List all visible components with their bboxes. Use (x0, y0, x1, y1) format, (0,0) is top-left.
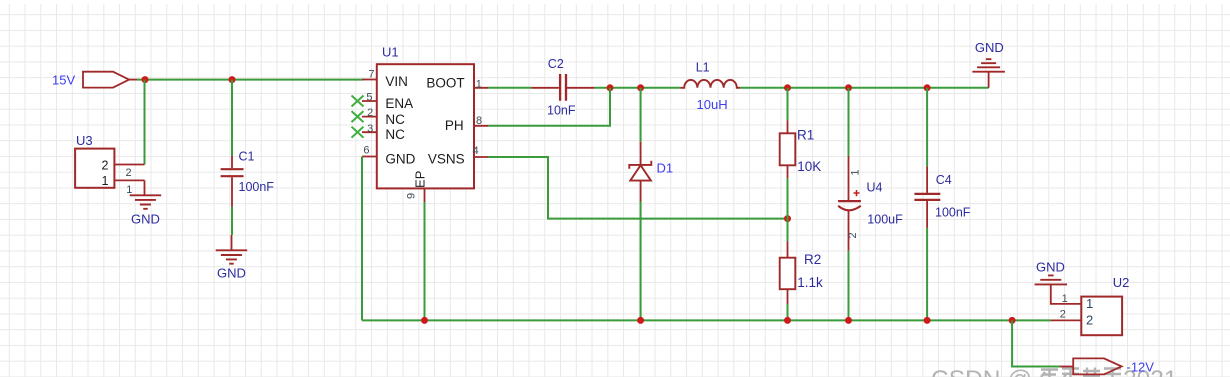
wire U3 branch (144, 80, 146, 165)
svg-text:PH: PH (445, 118, 464, 133)
svg-text:10K: 10K (797, 159, 821, 174)
capacitor U4 (electrolytic) (838, 88, 903, 321)
wire C1 branch (231, 80, 233, 156)
svg-text:R2: R2 (804, 252, 821, 267)
svg-text:2: 2 (1060, 309, 1066, 321)
wire PH net (488, 88, 610, 126)
wire C2 to L1 (595, 87, 681, 89)
svg-text:10uH: 10uH (697, 97, 728, 112)
svg-text:C2: C2 (548, 57, 564, 71)
svg-text:1: 1 (1062, 293, 1068, 305)
capacitor C2 (531, 57, 594, 117)
svg-text:100nF: 100nF (239, 180, 275, 194)
junction PH node (607, 84, 614, 91)
svg-text:U3: U3 (76, 133, 93, 148)
svg-text:2: 2 (126, 167, 132, 179)
svg-text:2: 2 (1086, 313, 1093, 328)
svg-text:2: 2 (847, 232, 859, 238)
wire VIN net (137, 79, 363, 81)
no-connect X pin3 (352, 127, 364, 138)
junction VIN/U3 (142, 76, 149, 83)
no-connect X pin5 (352, 96, 364, 107)
ground GND top right (972, 40, 1005, 88)
junction U4 top (845, 84, 852, 91)
wire L1 to output node (740, 87, 989, 89)
svg-text:NC: NC (385, 127, 405, 142)
svg-text:GND: GND (975, 40, 1004, 55)
junction D1/bus (637, 317, 644, 324)
svg-text:BOOT: BOOT (426, 75, 464, 90)
capacitor C1 (221, 150, 275, 207)
svg-text:10nF: 10nF (547, 103, 576, 117)
junction C4 top (924, 84, 931, 91)
junction U2 branch (1009, 317, 1016, 324)
junction VIN/C1 (229, 76, 236, 83)
wire bottom bus (362, 319, 1051, 321)
wire BOOT to C2 (488, 87, 531, 89)
junction D1 node (637, 84, 644, 91)
wire output branch (1012, 320, 1060, 366)
wire VSNS net (488, 157, 788, 219)
svg-text:GND: GND (217, 266, 246, 281)
svg-text:CSDN @: CSDN @ (931, 366, 1032, 377)
svg-text:100nF: 100nF (935, 206, 971, 220)
svg-text:U4: U4 (867, 180, 883, 194)
connector U2 (1051, 275, 1130, 335)
svg-text:R1: R1 (797, 128, 814, 143)
diode D1 (zener) (629, 88, 673, 321)
power port 15V (52, 72, 138, 88)
IC U1 (362, 45, 488, 203)
svg-text:9: 9 (406, 193, 418, 199)
svg-text:GND: GND (1036, 260, 1065, 275)
svg-text:5: 5 (366, 92, 372, 104)
svg-text:3: 3 (367, 123, 373, 135)
wire EP to bus (424, 202, 426, 320)
wire U1 GND pin6 to bus (361, 157, 363, 321)
ground GND under C1 (216, 235, 248, 281)
junction R1 top (784, 84, 791, 91)
svg-text:100uF: 100uF (867, 212, 903, 226)
svg-text:1.1k: 1.1k (797, 275, 823, 290)
svg-text:GND: GND (385, 151, 415, 166)
power port 12V (1060, 358, 1154, 374)
svg-text:1: 1 (102, 174, 109, 188)
svg-text:1: 1 (476, 78, 482, 90)
svg-text:C1: C1 (239, 150, 255, 164)
no-connect X pin2 (352, 111, 364, 122)
svg-text:15V: 15V (52, 72, 75, 87)
junction C4/bus (924, 317, 931, 324)
svg-text:1: 1 (1086, 296, 1093, 311)
svg-text:8: 8 (476, 115, 482, 127)
svg-text:U1: U1 (382, 45, 399, 60)
resistor R1 (780, 88, 822, 219)
svg-text:1: 1 (849, 170, 861, 176)
svg-text:U2: U2 (1113, 275, 1130, 290)
svg-text:GND: GND (131, 211, 160, 226)
svg-text:6: 6 (363, 145, 369, 157)
ground GND under U3 (130, 195, 162, 226)
capacitor C4 (914, 88, 970, 321)
junction R2/bus (784, 317, 791, 324)
svg-text:NC: NC (385, 112, 405, 127)
svg-text:2: 2 (102, 158, 109, 172)
svg-text:C4: C4 (936, 173, 952, 187)
svg-text:VIN: VIN (385, 74, 408, 89)
svg-text:-12V: -12V (1127, 360, 1155, 375)
resistor R2 (780, 219, 823, 321)
svg-text:D1: D1 (657, 161, 674, 176)
inductor L1 (680, 61, 740, 113)
junction feedback node (784, 215, 791, 222)
connector U3 (75, 133, 144, 196)
wire C1 to ground (231, 207, 233, 235)
watermark CSDN (931, 366, 1178, 377)
svg-text:ENA: ENA (385, 96, 413, 111)
svg-text:2: 2 (367, 107, 373, 119)
svg-text:1: 1 (126, 184, 132, 196)
svg-text:7: 7 (368, 69, 374, 81)
svg-text:4: 4 (473, 145, 479, 157)
svg-text:VSNS: VSNS (428, 151, 465, 166)
svg-text:EP: EP (413, 171, 428, 188)
junction U4/bus (845, 317, 852, 324)
ground GND above U2 (1035, 260, 1068, 285)
junction EP/bus (421, 317, 428, 324)
svg-text:L1: L1 (696, 61, 710, 75)
